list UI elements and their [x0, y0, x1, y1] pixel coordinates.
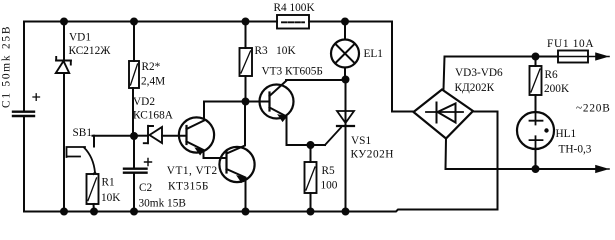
wire bridge bottom to output arrow: [446, 139, 599, 170]
wire bridge top to fuse line: [444, 57, 559, 90]
svg-text:200K: 200K: [544, 83, 570, 95]
svg-text:R1: R1: [102, 177, 115, 189]
svg-text:VD1: VD1: [69, 32, 91, 44]
node EL1 top junction: [342, 19, 348, 25]
svg-text:R6: R6: [545, 69, 559, 81]
svg-text:2,4M: 2,4M: [141, 76, 165, 88]
resistor R5: [305, 145, 317, 212]
svg-text:КС168А: КС168А: [133, 110, 174, 122]
node C2 bottom junction: [131, 209, 137, 215]
wire collector node to VT3 base: [204, 101, 268, 103]
wire SB1 to C2 node: [93, 135, 135, 137]
wire VT3 collector to EL1 node: [286, 79, 346, 81]
resistor R4: [277, 15, 309, 29]
pushbutton SB1: [67, 136, 96, 173]
svg-text:HL1: HL1: [556, 128, 577, 140]
zener diode VD2: [134, 126, 187, 144]
node R6 top junction: [533, 54, 539, 60]
wire right drop from top rail to bridge left: [392, 22, 414, 112]
svg-text:VS1: VS1: [351, 135, 371, 147]
svg-text:КД202К: КД202К: [455, 82, 495, 94]
svg-text:10K: 10K: [101, 192, 121, 204]
svg-text:FU1 10A: FU1 10A: [547, 38, 594, 50]
node R1 bottom junction: [91, 209, 97, 215]
svg-text:R4 100K: R4 100K: [274, 2, 316, 14]
neon lamp HL1: [517, 112, 554, 169]
resistor R6: [530, 57, 542, 113]
arrow output bottom: [596, 166, 609, 172]
svg-text:VT1, VT2: VT1, VT2: [167, 165, 218, 177]
svg-text:ТН-0,3: ТН-0,3: [559, 144, 592, 156]
node VD1 bottom junction: [61, 209, 67, 215]
zener diode VD1: [56, 22, 71, 212]
transistor VT1: [179, 102, 227, 159]
transistor VT3: [260, 81, 326, 146]
svg-text:VT3 КТ605Б: VT3 КТ605Б: [262, 66, 323, 78]
transistor VT2: [219, 102, 254, 212]
svg-text:R3 10K: R3 10K: [255, 45, 297, 57]
node VS1 cathode bottom junction: [343, 209, 349, 215]
wire top rail right segment: [309, 21, 392, 23]
node R5 / gate junction: [308, 142, 314, 148]
svg-text:C2: C2: [139, 182, 153, 194]
svg-text:30mk 15В: 30mk 15В: [139, 198, 186, 210]
svg-text:C1 50mk 25В: C1 50mk 25В: [1, 25, 13, 108]
wire top rail left segment: [24, 21, 277, 23]
arrow output top: [588, 53, 609, 59]
svg-text:R5: R5: [322, 165, 336, 177]
thyristor VS1: [325, 80, 354, 212]
wire bottom rail: [24, 210, 497, 212]
node VT3 collector / VS1 anode junction: [343, 77, 349, 83]
lamp EL1: [331, 22, 359, 80]
node R2 top junction: [131, 19, 137, 25]
svg-text:КС212Ж: КС212Ж: [69, 45, 112, 57]
svg-text:R2*: R2*: [142, 61, 161, 73]
capacitor C1: [13, 22, 40, 212]
capacitor C2: [124, 136, 152, 212]
diode bridge VD3-VD6: [414, 90, 474, 139]
svg-text:~220В: ~220В: [576, 103, 611, 115]
svg-text:EL1: EL1: [364, 48, 383, 60]
svg-text:КУ202Н: КУ202Н: [351, 149, 394, 161]
node VD1 top junction: [61, 19, 67, 25]
node HL1 bottom junction: [533, 166, 539, 172]
fuse FU1: [558, 51, 588, 63]
node R5 bottom junction: [308, 209, 314, 215]
svg-text:VD2: VD2: [133, 96, 155, 108]
node VD2/C2/SB1 junction: [131, 133, 137, 139]
node R3 bottom junction: [243, 99, 249, 105]
node R3 top junction: [243, 19, 249, 25]
svg-text:100: 100: [321, 180, 338, 192]
svg-text:VD3-VD6: VD3-VD6: [455, 67, 503, 79]
svg-text:SB1: SB1: [73, 127, 92, 139]
wire bridge right corner to bottom rail: [473, 112, 498, 210]
resistor R3: [240, 22, 253, 102]
node VT2 emitter bottom junction: [243, 209, 249, 215]
resistor R2: [129, 22, 139, 137]
svg-text:КТ315Б: КТ315Б: [168, 181, 209, 193]
resistor R1: [87, 173, 99, 212]
